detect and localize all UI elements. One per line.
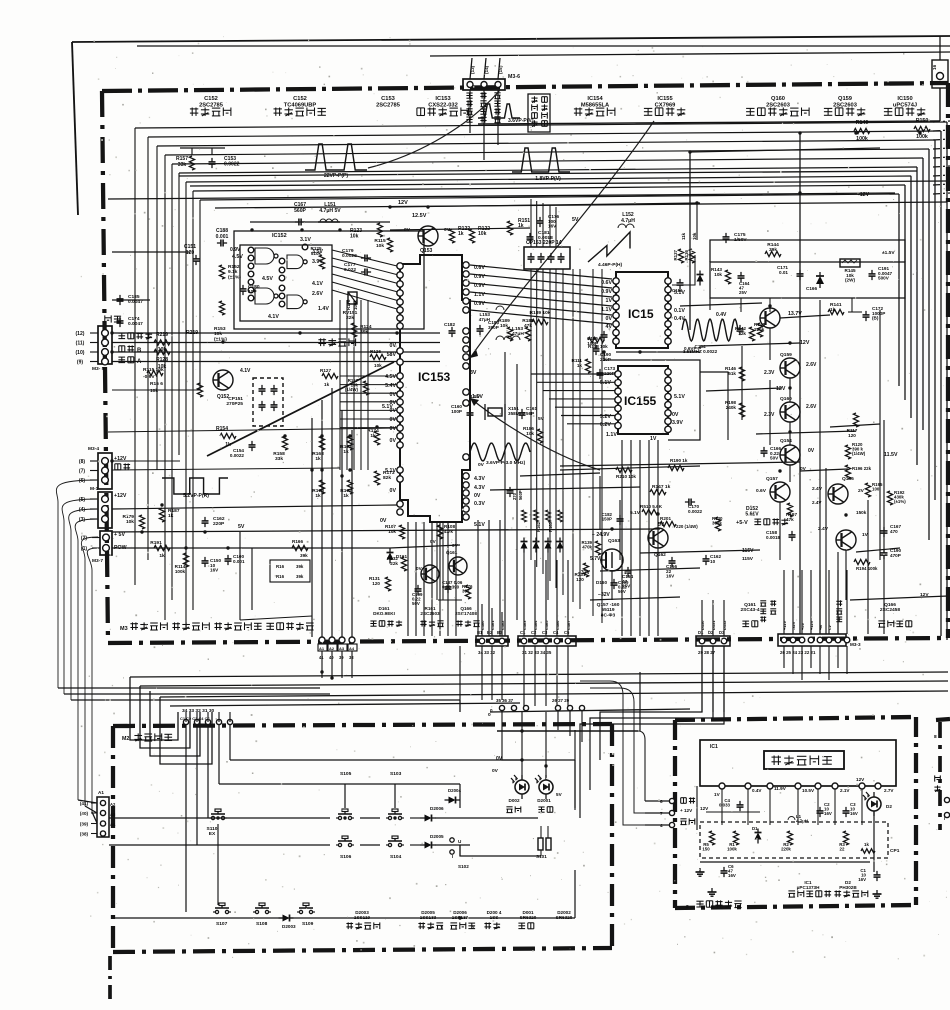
diode D159 xyxy=(697,271,704,286)
label block Q159 top band xyxy=(824,96,865,116)
wire left drop join3 xyxy=(71,699,460,701)
wire left drop 6 xyxy=(87,548,98,812)
transistor Q158 xyxy=(760,308,802,328)
svg-text:10k: 10k xyxy=(374,363,382,368)
capacitor C181 xyxy=(527,230,554,243)
capacitor C175 xyxy=(723,232,748,243)
svg-text:1.8VP-P(V): 1.8VP-P(V) xyxy=(535,176,561,182)
svg-text:0V: 0V xyxy=(430,539,437,544)
diode D152 xyxy=(545,538,552,553)
main block dashed border bottom xyxy=(108,638,948,643)
IC15 right pin 5 xyxy=(665,312,671,318)
label block Q160 top band xyxy=(746,96,809,116)
wire left mid h410 xyxy=(0,0,1,1)
wire right v 868 xyxy=(867,500,869,634)
capacitor C151 xyxy=(184,244,200,265)
transistor Q163 xyxy=(600,538,623,571)
diode D2004 xyxy=(445,788,462,804)
connector C1-C5 xyxy=(518,636,576,646)
label video-control xyxy=(118,332,152,339)
svg-text:0V: 0V xyxy=(390,426,397,432)
wire r118 xyxy=(0,0,1,1)
wire right h 571 xyxy=(600,568,700,571)
IC15 left pin 7 xyxy=(613,329,619,335)
IC153 right pin 9 xyxy=(463,346,469,352)
wire mid h 252 xyxy=(112,251,190,253)
label rot conn 4 xyxy=(533,620,538,630)
wire POW rail xyxy=(112,547,390,549)
inductor L153 xyxy=(496,326,524,340)
wire d conn ups xyxy=(702,600,724,636)
svg-text:5V: 5V xyxy=(238,524,245,530)
svg-text:120: 120 xyxy=(372,581,380,586)
label pin (2) xyxy=(81,535,100,541)
svg-text:33k: 33k xyxy=(178,162,187,168)
wire x820 ext xyxy=(819,560,821,634)
svg-text:39k: 39k xyxy=(769,247,777,253)
capacitor C161 xyxy=(519,406,538,419)
label 12V ir xyxy=(700,806,709,811)
resistor R142 xyxy=(735,326,755,341)
switch S105 xyxy=(336,771,354,820)
IR box dashed right xyxy=(914,717,918,905)
svg-text:0V: 0V xyxy=(416,566,423,571)
IC153 right pin 6 xyxy=(463,307,469,313)
label 2.6V xyxy=(312,291,323,297)
wire pin9 right xyxy=(112,361,440,363)
label IC15L 0.6V xyxy=(601,280,612,286)
wire bus frame 5 top xyxy=(172,158,923,164)
resistor R187 xyxy=(159,508,179,522)
wire ic155 right bus xyxy=(700,372,728,440)
svg-text:10k: 10k xyxy=(214,331,222,337)
capacitor C179 xyxy=(342,248,371,262)
label 3.9V xyxy=(312,259,323,265)
IC152 pin 4 xyxy=(248,271,254,277)
IC153 right pin 18 xyxy=(463,498,469,504)
wire left low v xyxy=(240,532,252,620)
IC155 right pin 2 xyxy=(665,377,671,383)
wire bundle v0 xyxy=(530,269,532,560)
svg-text:1k: 1k xyxy=(864,842,869,847)
svg-text:4.5V: 4.5V xyxy=(385,374,396,380)
svg-text:0.6V: 0.6V xyxy=(601,280,612,286)
svg-text:10k: 10k xyxy=(478,231,487,237)
svg-text:0V: 0V xyxy=(390,488,397,494)
svg-text:11.9V: 11.9V xyxy=(774,786,787,791)
wire right v 880 xyxy=(879,310,881,560)
resistor R1 ir xyxy=(727,831,738,852)
resistor R127 xyxy=(320,368,338,387)
wire led drop2 xyxy=(545,712,547,780)
svg-text:1k: 1k xyxy=(343,493,349,499)
wire bottom bus 3 xyxy=(160,691,948,697)
wire junction R149 xyxy=(799,133,801,530)
inductor L1 ir xyxy=(788,814,808,824)
wire ic15 right bus2 xyxy=(0,0,1,1)
resistor R126 xyxy=(370,349,386,368)
resistor R107 xyxy=(385,524,405,539)
IC155 left pin 3 xyxy=(615,388,621,394)
wire right stub 5 xyxy=(933,166,950,167)
wire A conn drops xyxy=(322,651,352,678)
wire sig line xyxy=(112,468,340,470)
svg-text:Q156: Q156 xyxy=(842,476,854,482)
resistor R117v xyxy=(345,378,369,395)
svg-text:5.4V: 5.4V xyxy=(385,383,396,389)
wire bus frame 7 top xyxy=(186,176,911,182)
capacitor C167 xyxy=(294,202,307,226)
svg-text:M3- 5: M3- 5 xyxy=(92,366,105,372)
diode D2003 xyxy=(279,915,297,930)
resistor R136 rot xyxy=(684,249,695,263)
svg-text:Q157: Q157 xyxy=(766,476,778,482)
svg-text:115V: 115V xyxy=(742,556,754,562)
svg-text:10: 10 xyxy=(710,559,716,564)
svg-text:EX: EX xyxy=(209,831,216,837)
LED D2001 xyxy=(535,775,553,799)
wire M2 vert s110 xyxy=(217,824,219,905)
wire ir in1 xyxy=(645,800,669,802)
svg-text:4.5V: 4.5V xyxy=(262,276,273,282)
svg-text:A4: A4 xyxy=(349,646,355,651)
label IC155 xyxy=(624,394,657,408)
IC153 left pin 16 xyxy=(397,416,403,422)
IC155 left pin 5 xyxy=(615,405,621,411)
component CP151 box xyxy=(226,378,283,426)
svg-text:11.5V: 11.5V xyxy=(884,452,898,458)
svg-text:4.7μH: 4.7μH xyxy=(621,218,635,224)
label pin (7) xyxy=(79,468,98,474)
svg-text:0.01: 0.01 xyxy=(779,270,788,275)
label pin (6) xyxy=(79,478,98,484)
svg-text:(B): (B) xyxy=(872,316,879,321)
resistor R5 ir xyxy=(702,831,714,852)
svg-text:0.00 390: 0.00 390 xyxy=(442,585,460,590)
wire right stub 0 xyxy=(933,121,950,122)
wire right stub 7 xyxy=(933,184,950,185)
capacitor C2 ir xyxy=(817,802,832,817)
wire bus frame 9 right xyxy=(898,194,900,386)
waveform sine C184 xyxy=(682,319,738,354)
connector M3-4 xyxy=(88,446,112,489)
svg-text:34 33 32: 34 33 32 xyxy=(478,650,496,655)
wire gates out bundle xyxy=(340,300,368,470)
wire right stub 8 xyxy=(933,193,950,194)
svg-text:1k: 1k xyxy=(324,382,330,387)
wire bus frame 2 left xyxy=(147,137,149,560)
wire ir in2 xyxy=(645,812,669,814)
label band B xyxy=(119,345,142,354)
wire c conn ups xyxy=(524,560,568,636)
wire bus frame 3 right xyxy=(934,140,936,500)
IC155 left pin 6 xyxy=(615,414,621,420)
svg-text:16V: 16V xyxy=(210,568,219,573)
label pin (10) xyxy=(76,350,98,356)
svg-text:0.0022: 0.0022 xyxy=(230,453,245,458)
svg-text:1k: 1k xyxy=(225,442,231,448)
wire q-chain vertical2 xyxy=(769,328,771,360)
label IC155R 5.1V xyxy=(674,394,685,400)
wire right h 490 xyxy=(490,487,640,490)
label IC153L 58V 354 xyxy=(387,352,397,358)
wire mid h lines xyxy=(0,0,1,1)
svg-text:(7): (7) xyxy=(79,468,85,474)
wire m33 up long xyxy=(0,0,1,1)
capacitor C186 xyxy=(672,279,684,293)
svg-text:3.9V: 3.9V xyxy=(672,420,683,426)
IC15 right pin 1 xyxy=(665,278,671,284)
svg-text:100k: 100k xyxy=(856,136,868,142)
label IC155R 1V xyxy=(650,436,657,442)
label 12V r1 xyxy=(800,340,810,346)
label IC15L 4V xyxy=(606,324,613,330)
svg-text:4.5V: 4.5V xyxy=(232,254,243,260)
label rotated col 2 xyxy=(480,92,486,122)
wire bus frame 6 right xyxy=(916,167,918,465)
label D152 xyxy=(745,506,759,517)
capacitor C182r xyxy=(602,512,624,525)
svg-text:S106: S106 xyxy=(340,854,352,860)
label pin (4) xyxy=(79,507,98,513)
wire gate outer box xyxy=(234,231,424,329)
svg-text:3.6VP-P(3.0 MHz): 3.6VP-P(3.0 MHz) xyxy=(486,460,526,466)
wire ic155 lpin stub 3 xyxy=(549,398,615,400)
label pin (3) xyxy=(79,517,98,523)
wire ir bottom rail xyxy=(700,861,870,863)
IC155 right pin 7 xyxy=(665,418,671,424)
svg-text:1V: 1V xyxy=(606,298,613,304)
resistor R124 xyxy=(351,323,371,337)
svg-text:R150: R150 xyxy=(916,118,929,124)
label +5V xyxy=(114,532,125,538)
svg-text:470: 470 xyxy=(890,529,898,534)
IC153 left pin 4 xyxy=(397,290,403,296)
svg-text:0V: 0V xyxy=(492,768,499,774)
svg-text:220k: 220k xyxy=(754,327,765,332)
wire right stub 6 xyxy=(933,175,950,176)
label 0V q153b xyxy=(444,227,451,233)
IC153 left pin 10 xyxy=(397,359,403,365)
resistor R149 xyxy=(854,120,870,142)
wire right h 466 xyxy=(560,462,800,466)
resistor R172 xyxy=(340,480,352,499)
svg-text:16V: 16V xyxy=(850,811,858,816)
resistor R219 xyxy=(154,332,170,353)
wire q158 wires xyxy=(780,312,862,318)
svg-text:IC153: IC153 xyxy=(418,370,451,384)
wire ir feed2 xyxy=(580,681,645,825)
svg-text:IC155: IC155 xyxy=(657,96,673,102)
label IR pin volts xyxy=(714,786,894,797)
svg-text:16V: 16V xyxy=(858,877,866,882)
svg-text:(±1%): (±1%) xyxy=(214,336,227,342)
label M2 top nums xyxy=(180,708,215,721)
label D001 grp xyxy=(518,910,536,929)
label +12V b xyxy=(114,493,127,499)
transistor Q154 xyxy=(780,438,815,465)
svg-text:270P25: 270P25 xyxy=(226,401,243,407)
IC152 gate 1 xyxy=(255,248,278,264)
label diode col xyxy=(536,521,553,532)
capacitor C100 xyxy=(225,554,245,565)
resistor R151 xyxy=(507,218,530,235)
IC153 left pin 21 xyxy=(397,476,403,482)
capacitor C155 xyxy=(587,331,608,346)
wire c-to-m2 xyxy=(459,700,461,712)
svg-text:9.1k: 9.1k xyxy=(228,269,238,275)
label IC153L 4.5V 376 xyxy=(385,374,396,380)
svg-text:0.9V: 0.9V xyxy=(230,247,241,253)
label 1.5V x xyxy=(470,394,481,400)
svg-text:4.1V: 4.1V xyxy=(268,314,279,320)
label rot M33 hz xyxy=(760,600,842,622)
IC152 pin 9 xyxy=(279,267,285,273)
label 270 560P xyxy=(512,490,523,500)
wire bottom right rail xyxy=(850,596,948,600)
IC15 left pin 5 xyxy=(613,312,619,318)
wire left long v1 xyxy=(0,0,1,1)
wire v505 bundle xyxy=(505,352,517,636)
inductor L151 xyxy=(318,202,341,222)
wire trunk below M2 xyxy=(108,956,112,1000)
label block C152 top band xyxy=(190,96,231,116)
svg-text:0V: 0V xyxy=(672,412,679,418)
ground ir2 xyxy=(708,888,882,898)
svg-text:8: 8 xyxy=(686,904,689,910)
IC152 gate 2 xyxy=(287,255,307,269)
wire bus frame 1 right xyxy=(946,122,948,640)
wire s101 route xyxy=(460,845,541,856)
label M2 xyxy=(122,733,172,742)
IC155 right pin 5 xyxy=(665,402,671,408)
svg-text:M2: M2 xyxy=(122,736,129,742)
label IC153 1.1V 294 xyxy=(474,292,485,298)
label pin (40) xyxy=(80,811,97,816)
wire rail y199 xyxy=(108,193,895,199)
wire ir rail xyxy=(697,786,760,830)
label 11k rot xyxy=(681,232,686,240)
capacitor C1 ir xyxy=(858,868,880,882)
svg-text:R126: R126 xyxy=(370,349,381,354)
wire bundle v9 xyxy=(601,269,603,623)
svg-text:S107: S107 xyxy=(216,921,228,927)
connector M-1 xyxy=(98,492,112,528)
IC153 right pin 12 xyxy=(463,389,469,395)
wire bus frame 8 left xyxy=(192,191,194,610)
wire M3-6 pin14 up xyxy=(484,58,489,160)
svg-text:A2: A2 xyxy=(110,802,116,807)
svg-text:1k: 1k xyxy=(370,433,376,439)
svg-text:IC153: IC153 xyxy=(435,96,450,102)
svg-text:S109: S109 xyxy=(302,921,314,927)
switch S102 circ xyxy=(450,838,469,869)
svg-text:10k: 10k xyxy=(692,232,697,240)
svg-text:DKO.9EKI: DKO.9EKI xyxy=(373,611,395,616)
svg-text:R219: R219 xyxy=(186,330,198,336)
svg-text:22VP-P(P): 22VP-P(P) xyxy=(324,173,348,179)
wire bundle v5 xyxy=(562,269,564,595)
waveform 5.2VP-P xyxy=(162,478,228,499)
wire outer border inner top xyxy=(137,45,950,47)
diode D2006 xyxy=(421,806,445,822)
resistor R137 rot xyxy=(673,249,684,263)
capacitor C162r xyxy=(703,554,722,565)
resistor R131 xyxy=(574,563,588,582)
wire left drop join4 xyxy=(78,800,97,803)
svg-text:120: 120 xyxy=(186,250,195,256)
svg-text:5.1V: 5.1V xyxy=(630,510,641,516)
svg-text:IC154: IC154 xyxy=(587,96,603,102)
svg-text:0.0018: 0.0018 xyxy=(766,535,781,540)
wire right rail 433 xyxy=(756,431,856,434)
svg-text:2SC2458: 2SC2458 xyxy=(880,607,900,613)
label ir inputs xyxy=(660,797,695,828)
wire q155 net xyxy=(856,548,900,552)
wire bus frame 5 right xyxy=(922,158,924,430)
label 12V br xyxy=(920,592,929,598)
svg-text:Q153: Q153 xyxy=(420,248,433,254)
label IC155R 0V xyxy=(672,412,679,418)
wire ic153 bot wires2 xyxy=(437,522,443,600)
svg-text:0.033: 0.033 xyxy=(719,803,731,808)
resistor R173 xyxy=(374,470,394,485)
capacitor C184b xyxy=(737,325,744,335)
wire curve 3 to sine xyxy=(470,398,600,470)
capacitor C158 xyxy=(766,530,796,541)
wire ic155 lpin stub 0 xyxy=(531,373,615,375)
transistor Q159r xyxy=(764,352,817,378)
wire left drop join5 xyxy=(85,806,97,813)
label 1.4V xyxy=(318,306,329,312)
svg-text:(39): (39) xyxy=(80,821,89,826)
svg-text:R191: R191 xyxy=(150,540,162,546)
IC IC15 body xyxy=(616,272,668,348)
label M3 mem xyxy=(120,622,314,632)
IC155 right pin 8 xyxy=(665,426,671,432)
IC152 pin 13 xyxy=(279,301,285,307)
svg-text:16V: 16V xyxy=(824,811,832,816)
svg-text:10.5V: 10.5V xyxy=(802,788,815,793)
wire ir drop xyxy=(639,672,641,731)
label -32V xyxy=(578,570,591,576)
svg-text:(8): (8) xyxy=(79,459,85,465)
wire ic155 drops xyxy=(622,440,658,636)
wire IC153 rpin 5 xyxy=(470,310,612,324)
IC15 left pin 6 xyxy=(613,321,619,327)
svg-text:10k: 10k xyxy=(714,272,722,277)
wire bottom left bundle4 xyxy=(160,697,212,764)
label 4.1V b xyxy=(268,314,279,320)
IC153 left pin 9 xyxy=(397,348,403,354)
connector mid pins xyxy=(490,698,529,713)
svg-text:2.6V: 2.6V xyxy=(806,404,817,410)
svg-text:0V: 0V xyxy=(808,448,815,454)
label 12V q153 xyxy=(398,200,408,206)
svg-text:+12V: +12V xyxy=(114,493,127,499)
wire bus frame 6 top xyxy=(179,167,917,173)
wire bottom left bundle3 xyxy=(150,691,200,756)
svg-text:S102: S102 xyxy=(458,864,469,869)
user control dashed box bottom xyxy=(113,948,612,952)
IR inner rect xyxy=(700,740,896,786)
wire bundle vup4 xyxy=(555,207,557,247)
svg-text:A4: A4 xyxy=(110,822,116,827)
capacitor C199b xyxy=(412,585,423,606)
svg-text:A3: A3 xyxy=(110,812,116,817)
svg-text:2SC2603: 2SC2603 xyxy=(766,102,790,108)
label 5.7V xyxy=(590,556,601,562)
